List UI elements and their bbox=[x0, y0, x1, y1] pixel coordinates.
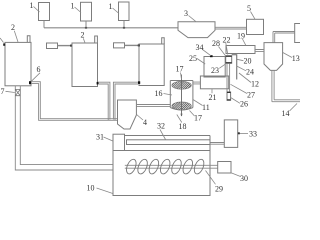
connector box 26 bbox=[227, 92, 231, 100]
leader 14 bbox=[290, 104, 298, 112]
label 23 inside bbox=[211, 66, 219, 75]
leader 17 bottom bbox=[190, 111, 195, 117]
label 18 bbox=[179, 122, 187, 131]
stub on tank2c bbox=[162, 38, 165, 44]
svg-text:31: 31 bbox=[96, 132, 104, 141]
node dot tank2c inlet bbox=[138, 44, 140, 46]
svg-text:33: 33 bbox=[249, 129, 257, 138]
bus line to vessel 3 bbox=[44, 27, 178, 29]
label 17 bottom bbox=[194, 114, 202, 123]
electrode line (wire from box19 bottom) bbox=[232, 55, 237, 80]
feeder slot bbox=[127, 140, 211, 145]
leader 23 bbox=[219, 64, 225, 68]
leader 3 bbox=[189, 16, 196, 22]
stirrer top ellipse 17 bbox=[172, 81, 191, 89]
leader 21 bbox=[211, 89, 213, 93]
svg-text:34: 34 bbox=[196, 43, 204, 52]
label 20 bbox=[244, 56, 252, 65]
label 29 bbox=[215, 185, 223, 194]
svg-text:17: 17 bbox=[176, 65, 184, 74]
leader 2a bbox=[14, 31, 18, 42]
stem from box 1a bbox=[43, 21, 45, 28]
leader 19 bbox=[243, 39, 246, 45]
tank 1c bbox=[119, 2, 130, 21]
pipe tank2c outlet down to hopper bbox=[113, 82, 138, 120]
pipe box19 to funnel bbox=[255, 50, 264, 52]
leader 5 bbox=[251, 12, 256, 20]
label 6 bbox=[37, 65, 41, 74]
stub on tank2b bbox=[95, 36, 98, 43]
node dot tank2c outlet bbox=[138, 81, 140, 84]
label 1a bbox=[30, 1, 34, 10]
screw helix 29 bbox=[125, 158, 206, 175]
svg-text:2: 2 bbox=[81, 31, 85, 40]
svg-text:14: 14 bbox=[282, 109, 290, 118]
label 28 bbox=[212, 39, 220, 48]
stub on tank2a bbox=[27, 36, 30, 43]
svg-text:2: 2 bbox=[11, 23, 15, 32]
label 11 bbox=[202, 103, 210, 112]
label 32 bbox=[157, 121, 165, 130]
label 1b bbox=[71, 2, 75, 11]
svg-text:3: 3 bbox=[184, 9, 188, 18]
svg-text:29: 29 bbox=[215, 185, 223, 194]
label 31 bbox=[96, 132, 104, 141]
box 19 bbox=[226, 46, 255, 54]
svg-text:4: 4 bbox=[143, 118, 147, 127]
svg-text:23: 23 bbox=[211, 66, 219, 75]
svg-text:20: 20 bbox=[244, 56, 252, 65]
svg-text:17: 17 bbox=[194, 114, 202, 123]
leader 30 bbox=[231, 173, 241, 177]
leader 18 bbox=[177, 115, 182, 123]
pipe funnel spout down and right bbox=[272, 70, 300, 101]
screw shaft bbox=[125, 165, 218, 168]
label 17 top bbox=[176, 65, 184, 74]
svg-text:19: 19 bbox=[237, 32, 245, 41]
label 33 bbox=[249, 129, 257, 138]
tank 1a (reagent box top-left) bbox=[39, 3, 50, 21]
leader 7 bbox=[6, 91, 15, 92]
pipe pump a to tank2b bbox=[58, 45, 72, 47]
label 1c bbox=[109, 2, 113, 11]
box 5 bbox=[247, 19, 264, 34]
svg-text:1: 1 bbox=[71, 2, 75, 11]
label 13 bbox=[292, 54, 300, 63]
svg-text:1: 1 bbox=[109, 2, 113, 11]
svg-text:22: 22 bbox=[223, 35, 231, 44]
label 26 bbox=[240, 99, 248, 108]
pipe tank2b outlet down to hopper bbox=[98, 82, 110, 120]
box 33 bbox=[224, 120, 237, 147]
leader 26 bbox=[231, 98, 240, 104]
box 21 bbox=[200, 76, 228, 89]
svg-text:32: 32 bbox=[157, 121, 165, 130]
label 4 bbox=[143, 118, 147, 127]
leader 1b bbox=[75, 7, 82, 13]
box 15 right edge (top right) bbox=[295, 24, 303, 43]
junction blob b bbox=[85, 27, 87, 29]
leader 22 bbox=[226, 43, 228, 55]
label 27 bbox=[247, 90, 255, 99]
label 2b bbox=[81, 31, 85, 40]
connector box 28 bbox=[226, 56, 232, 63]
tank 2b bbox=[72, 43, 98, 87]
pipe slot to box33 bbox=[210, 143, 224, 145]
label 30 bbox=[240, 174, 248, 183]
svg-text:25: 25 bbox=[189, 54, 197, 63]
svg-text:27: 27 bbox=[247, 90, 255, 99]
label 24 bbox=[246, 67, 254, 76]
stirrer shaft 18 bbox=[181, 75, 182, 117]
tank 2c bbox=[139, 44, 164, 86]
leader 27 bbox=[231, 84, 248, 93]
svg-text:30: 30 bbox=[240, 174, 248, 183]
svg-text:11: 11 bbox=[202, 103, 210, 112]
leader 33 with dot bbox=[239, 132, 248, 134]
node dot tank2a top-left bbox=[3, 43, 5, 45]
label 12 bbox=[251, 79, 259, 88]
pump box a bbox=[47, 43, 58, 49]
stem from box 1b bbox=[85, 21, 87, 28]
feeder tray 32 top bbox=[125, 135, 211, 137]
leader 13 bbox=[283, 53, 292, 58]
pipe valve7 down then right to conveyor 10 bbox=[15, 96, 113, 170]
motor box 30 bbox=[218, 162, 231, 174]
pipe right box to funnel top bbox=[273, 32, 295, 43]
label 25 bbox=[189, 54, 197, 63]
leader 25 bbox=[197, 59, 205, 65]
leader 11 bbox=[193, 100, 203, 106]
label 7 bbox=[1, 87, 5, 96]
hopper 4 bbox=[118, 100, 137, 129]
leader 1c bbox=[113, 8, 120, 14]
svg-text:26: 26 bbox=[240, 99, 248, 108]
leader 28 bbox=[219, 47, 226, 56]
feeder box 31 bbox=[113, 134, 125, 150]
svg-text:24: 24 bbox=[246, 67, 254, 76]
leader 31 bbox=[104, 137, 113, 141]
label 3 bbox=[184, 9, 188, 18]
node dot tank2b inlet bbox=[70, 45, 72, 47]
leader 1a bbox=[34, 7, 40, 13]
leader 24 bbox=[237, 66, 246, 71]
label 14 bbox=[282, 109, 290, 118]
label 21 bbox=[209, 93, 217, 102]
pipe mixer to box21 bbox=[193, 82, 201, 84]
svg-text:10: 10 bbox=[87, 183, 95, 192]
pipe down from box28 bbox=[227, 63, 230, 92]
node dot on box23 top bbox=[210, 55, 213, 57]
leader 12 bbox=[239, 73, 251, 83]
label 16 bbox=[155, 89, 163, 98]
leader 29 bbox=[206, 171, 216, 185]
leader 4 bbox=[137, 115, 143, 121]
leader 6 bbox=[31, 73, 40, 82]
leader 32 bbox=[160, 130, 166, 140]
svg-text:16: 16 bbox=[155, 89, 163, 98]
svg-text:7: 7 bbox=[1, 87, 5, 96]
svg-text:6: 6 bbox=[37, 65, 41, 74]
label 34 bbox=[196, 43, 204, 52]
label 19 bbox=[237, 32, 245, 41]
svg-text:1: 1 bbox=[30, 1, 34, 10]
vessel 3 (trapezoid flotation cell) bbox=[178, 22, 215, 38]
label 22 bbox=[223, 35, 231, 44]
leader 16 bbox=[164, 94, 173, 96]
node dot tank2b outlet bbox=[97, 82, 99, 85]
stirrer bottom ellipse 17 bbox=[172, 102, 191, 110]
label 2a bbox=[11, 23, 15, 32]
mixer vessel 11 bbox=[170, 81, 193, 111]
pump box b bbox=[114, 43, 125, 48]
leader 10 bbox=[97, 188, 113, 194]
box 23 bbox=[204, 57, 225, 78]
pipe pump b to tank2c bbox=[125, 44, 139, 46]
stem from box 1c bbox=[123, 21, 125, 28]
funnel 13 bbox=[264, 43, 283, 71]
pipe vessel3 to box5 bbox=[215, 27, 247, 29]
node dot tank2a outlet bbox=[29, 81, 31, 84]
leader 20 bbox=[237, 59, 243, 60]
tank 2a bbox=[5, 42, 31, 85]
leader 17 top bbox=[181, 73, 182, 80]
valve 7 under tank2a bbox=[15, 86, 20, 90]
leader 34 bbox=[203, 50, 212, 56]
pipe hopper to mixer 11 bbox=[136, 105, 170, 107]
leader 2b bbox=[83, 38, 85, 43]
pipe tank2a outlet to hopper (down then right) bbox=[31, 82, 118, 121]
svg-text:12: 12 bbox=[251, 79, 259, 88]
label 5 bbox=[247, 4, 251, 13]
conveyor housing 10 bbox=[113, 134, 210, 195]
label 10 bbox=[87, 183, 95, 192]
svg-text:13: 13 bbox=[292, 54, 300, 63]
edge tick at left margin bbox=[0, 38, 4, 43]
tank 1b bbox=[81, 2, 92, 21]
svg-text:21: 21 bbox=[209, 93, 217, 102]
junction blob c bbox=[123, 27, 125, 29]
svg-text:18: 18 bbox=[179, 122, 187, 131]
